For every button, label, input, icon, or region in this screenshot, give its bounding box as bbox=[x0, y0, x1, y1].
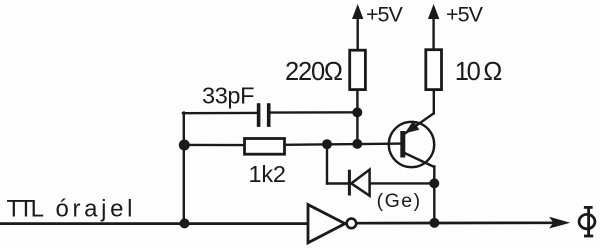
svg-text:+5V: +5V bbox=[366, 2, 403, 26]
wire diode branch vertical bbox=[326, 144, 328, 183]
svg-text:220Ω: 220Ω bbox=[285, 58, 343, 86]
junction node base line and diode branch bbox=[322, 139, 332, 149]
junction node on bottom wire at left vertical bbox=[180, 218, 190, 228]
transistor Q1 base bar bbox=[400, 131, 405, 158]
wire diode right lead bbox=[370, 182, 435, 184]
wire R2 top lead from +5V arrow bbox=[432, 18, 434, 50]
resistor R1 220 ohm body bbox=[350, 50, 366, 89]
wire bottom main line right of inverter bbox=[357, 221, 552, 224]
output node phi symbol bbox=[579, 207, 595, 237]
wire base line right segment (1k2 right lead to transistor base) bbox=[285, 144, 402, 145]
wire collector diagonal bbox=[404, 153, 435, 168]
diode D1 triangle bbox=[351, 170, 369, 196]
svg-text:órajel: órajel bbox=[56, 195, 133, 222]
inverter U1 triangle bbox=[308, 205, 345, 243]
wire emitter diagonal bbox=[405, 113, 434, 133]
capacitor C1 plates bbox=[259, 103, 269, 127]
svg-text:33pF: 33pF bbox=[202, 82, 255, 108]
transistor Q1 circle bbox=[389, 122, 434, 167]
svg-text:TTL: TTL bbox=[7, 195, 45, 222]
wire left vertical (node A feedback) bbox=[183, 113, 185, 224]
wire diode left lead bbox=[327, 182, 349, 184]
resistor R3 1k2 body bbox=[245, 139, 285, 155]
junction node base line and R1 lead bbox=[352, 139, 362, 149]
power arrow +5V left bbox=[352, 4, 363, 19]
junction node on base line at left vertical bbox=[179, 140, 190, 151]
svg-text:1k2: 1k2 bbox=[249, 161, 287, 187]
wire capacitor top line left segment bbox=[183, 112, 257, 115]
resistor R2 10 ohm body bbox=[426, 50, 442, 90]
wire R1 bottom lead through node to base line bbox=[356, 90, 358, 145]
junction node capacitor line and R1 lead bbox=[352, 107, 362, 117]
power arrow +5V right bbox=[428, 4, 439, 19]
inverter U1 output bubble bbox=[347, 219, 357, 229]
wire bottom main line left of inverter bbox=[1, 222, 308, 225]
wire R1 top lead from +5V arrow bbox=[357, 18, 359, 51]
wire base line left segment (1k2 left lead) bbox=[184, 144, 245, 147]
junction node diode and collector bbox=[429, 178, 439, 188]
svg-text:10 Ω: 10 Ω bbox=[455, 58, 503, 86]
svg-text:+5V: +5V bbox=[446, 2, 484, 26]
output arrowhead bbox=[549, 217, 570, 229]
wire collector vertical to output node bbox=[433, 167, 435, 224]
diode D1 cathode bar bbox=[348, 170, 351, 196]
transistor Q1 emitter arrowhead (PNP) bbox=[405, 121, 420, 133]
wire capacitor top line right segment bbox=[270, 111, 357, 114]
junction node collector and bottom wire bbox=[429, 218, 439, 228]
wire R2 bottom lead bbox=[433, 90, 435, 114]
